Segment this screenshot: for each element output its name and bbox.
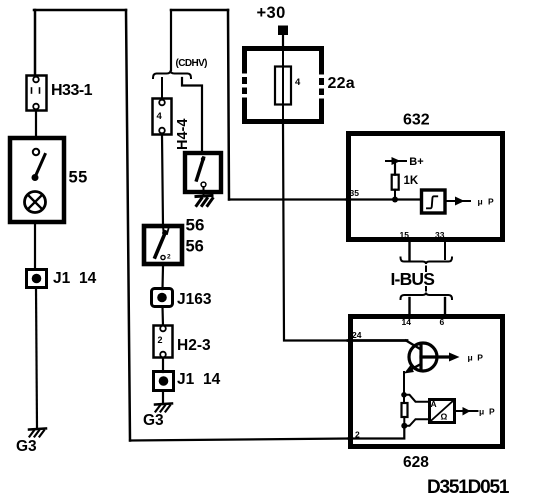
svg-text:628: 628	[403, 454, 429, 471]
wire stub pin15	[408, 242, 410, 260]
svg-text:P: P	[488, 196, 494, 206]
svg-text:μ: μ	[468, 353, 473, 363]
B+ feed arrow	[386, 157, 406, 165]
wire second riser	[170, 10, 172, 70]
svg-text:D351D051: D351D051	[427, 477, 510, 498]
svg-text:B+: B+	[409, 156, 423, 168]
svg-text:G3: G3	[16, 438, 37, 455]
transistor Q	[404, 341, 437, 374]
wire stub pin6	[444, 298, 446, 316]
svg-text:15: 15	[400, 230, 410, 240]
switch 56	[144, 226, 182, 264]
svg-text:Ω: Ω	[441, 412, 448, 422]
ground G3 (left)	[29, 429, 46, 437]
splice J1 14 (left)	[27, 270, 47, 288]
wire stub pin14	[408, 298, 410, 316]
wire pin2 internal	[348, 426, 404, 439]
svg-text:μ: μ	[478, 196, 483, 206]
wire long right branch vertical	[126, 10, 130, 441]
svg-text:24: 24	[352, 330, 362, 340]
wire to 632 pin 35	[229, 198, 346, 200]
svg-text:J1: J1	[177, 371, 195, 388]
ground under switch	[196, 196, 213, 206]
wire junction to A/D top	[404, 395, 429, 402]
wire to 628 pin 2	[130, 439, 348, 441]
ground G3 (middle)	[155, 404, 172, 412]
I-BUS top brace	[401, 258, 453, 265]
splice J1 14 (middle)	[154, 372, 174, 391]
wire H4-4 to 56	[162, 135, 163, 226]
svg-text:A: A	[431, 399, 437, 409]
svg-text:33: 33	[435, 230, 445, 240]
wire left riser to H33-1	[34, 10, 37, 76]
ECU 628 box	[351, 317, 503, 447]
base lead to uP arrow	[421, 353, 460, 362]
junction node lower	[401, 423, 407, 429]
wire junction to A/D bottom	[404, 419, 428, 426]
switch (courtesy, CDHV)	[185, 153, 221, 196]
svg-text:1K: 1K	[404, 175, 419, 187]
resistor (628)	[402, 395, 408, 426]
svg-text:35: 35	[350, 188, 360, 198]
I-BUS bottom brace	[401, 293, 453, 300]
svg-text:14: 14	[79, 270, 97, 287]
wire fuse to 628 pin 24	[283, 124, 348, 341]
arrow to uP (632)	[446, 197, 470, 206]
fuse box 22a (dashed)	[242, 46, 324, 124]
wire brace right drop to switch	[182, 78, 202, 152]
svg-text:2: 2	[167, 254, 171, 261]
svg-text:P: P	[489, 407, 495, 417]
svg-text:632: 632	[403, 112, 430, 129]
svg-text:6: 6	[440, 317, 445, 327]
I-BUS dash lower	[425, 287, 427, 291]
wire 56 to J163	[161, 266, 164, 289]
splice J163	[152, 289, 173, 307]
wire H33-1 to 55	[35, 111, 37, 137]
svg-text:H2-3: H2-3	[177, 337, 211, 354]
emitter wire down	[403, 372, 405, 393]
svg-text:2: 2	[158, 335, 163, 345]
wire pin35 to schmitt	[346, 198, 420, 200]
connector H2-3	[154, 326, 173, 358]
arrow to uP (A/D)	[456, 407, 478, 416]
wire 55 to J1	[34, 224, 36, 269]
svg-text:J1: J1	[53, 270, 71, 287]
svg-text:14: 14	[203, 371, 221, 388]
svg-text:G3: G3	[143, 412, 164, 429]
wire J163 to H2-3	[161, 307, 164, 326]
wire +30 to fuse	[282, 35, 284, 47]
svg-text:56: 56	[186, 238, 204, 256]
svg-text:P: P	[477, 353, 483, 363]
A/D converter	[429, 399, 455, 423]
wire right riser down to 632	[228, 10, 229, 200]
junction node upper	[401, 392, 407, 398]
wire J1 to G3 (middle)	[162, 391, 164, 403]
wire pin24 to transistor	[348, 339, 407, 342]
svg-text:4: 4	[157, 111, 163, 122]
schmitt trigger	[422, 190, 446, 213]
wire H2-3 to J1	[162, 358, 164, 372]
svg-text:μ: μ	[479, 407, 484, 417]
svg-text:55: 55	[69, 169, 88, 187]
svg-text:J163: J163	[177, 291, 212, 308]
ECU 632 box	[349, 134, 503, 240]
connector H4-4	[153, 99, 172, 135]
interior lamp unit 55	[10, 138, 64, 222]
wire J1 to G3 (left)	[36, 288, 37, 428]
wire top-left horizontal	[34, 9, 126, 12]
svg-text:I-BUS: I-BUS	[391, 269, 435, 289]
brace over connector H4-4	[153, 71, 191, 79]
svg-text:(CDHV): (CDHV)	[176, 58, 208, 69]
connector H33-1	[27, 76, 47, 111]
wire brace to H4-4	[161, 78, 163, 99]
svg-text:56: 56	[186, 216, 205, 235]
svg-text:H4-4: H4-4	[175, 119, 191, 150]
wire second top horizontal	[171, 9, 228, 12]
I-BUS dash upper	[425, 267, 427, 272]
svg-text:+30: +30	[257, 4, 286, 22]
wire stub pin33	[444, 242, 446, 259]
svg-text:22a: 22a	[328, 75, 355, 92]
junction node	[392, 197, 398, 203]
resistor 1K	[392, 161, 399, 198]
fuse element 22a	[275, 47, 291, 124]
svg-text:H33-1: H33-1	[51, 82, 93, 99]
+30 terminal	[278, 26, 288, 36]
svg-text:14: 14	[402, 317, 412, 327]
svg-text:4: 4	[295, 77, 301, 88]
